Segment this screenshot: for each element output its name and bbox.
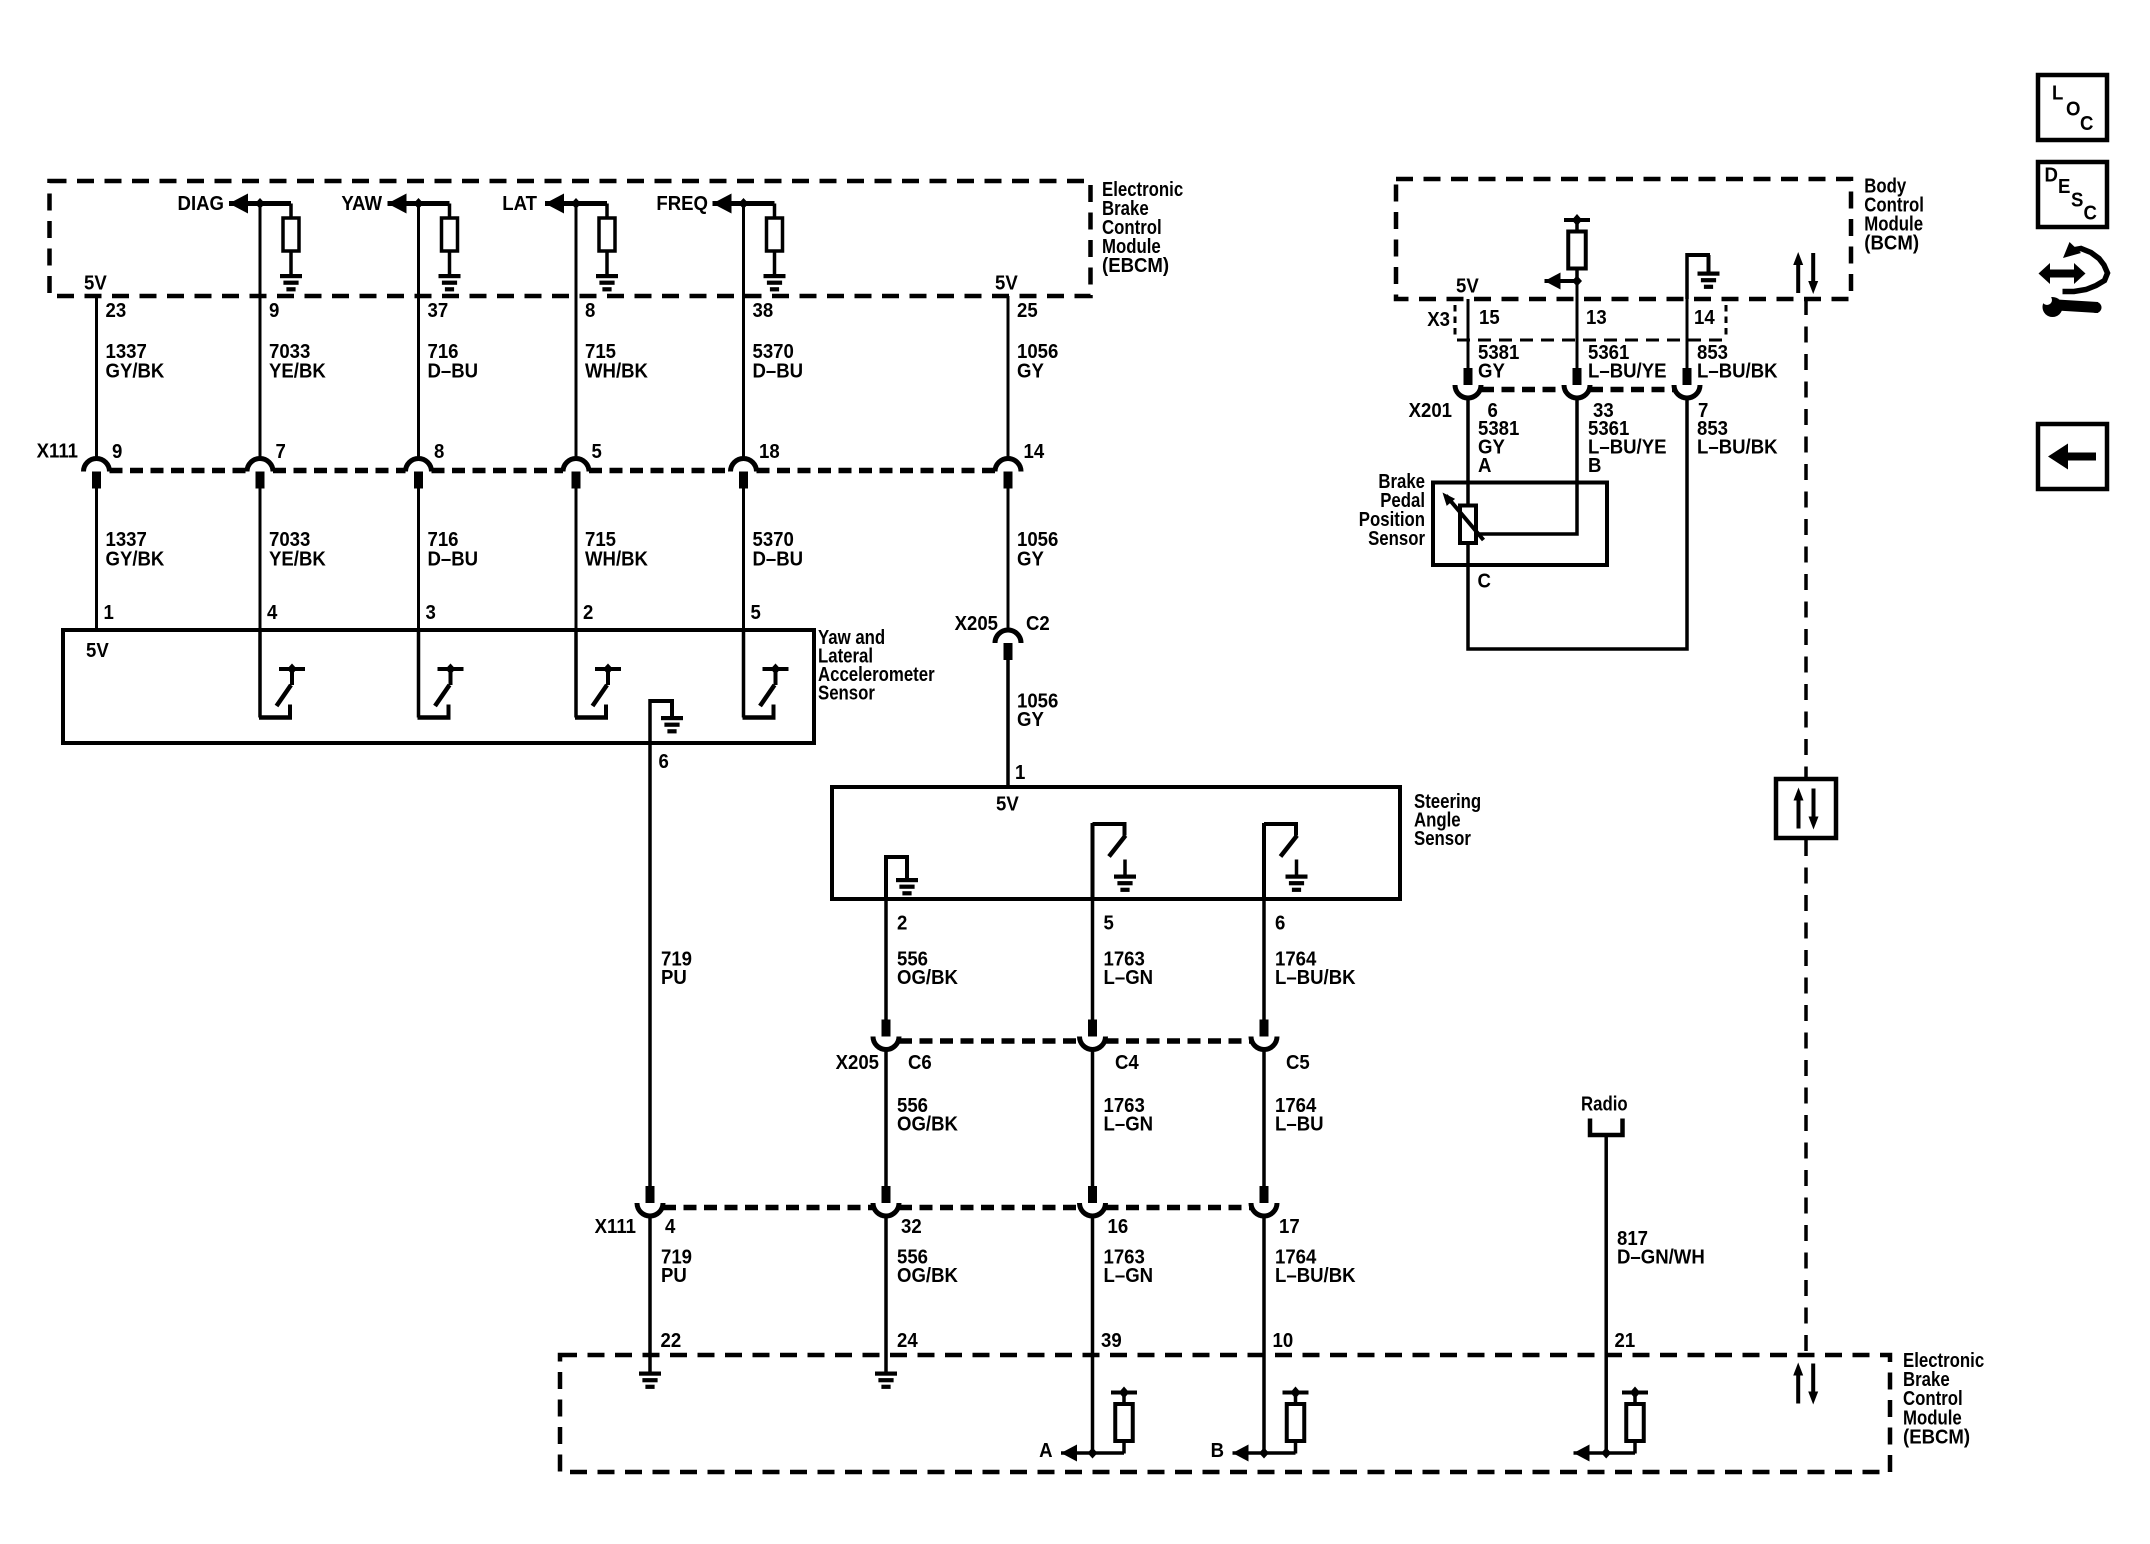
- svg-text:1: 1: [1015, 762, 1026, 784]
- svg-text:15: 15: [1479, 307, 1500, 329]
- svg-text:O: O: [2066, 99, 2080, 121]
- svg-text:5V: 5V: [1456, 276, 1479, 298]
- svg-text:GY: GY: [1017, 549, 1044, 571]
- svg-text:Module: Module: [1102, 235, 1161, 258]
- svg-text:9: 9: [112, 441, 123, 463]
- svg-text:OG/BK: OG/BK: [897, 967, 958, 989]
- svg-text:GY/BK: GY/BK: [106, 361, 165, 383]
- svg-text:4: 4: [267, 602, 278, 624]
- svg-text:6: 6: [1275, 913, 1286, 935]
- svg-text:YAW: YAW: [341, 193, 382, 215]
- svg-text:B: B: [1211, 1440, 1224, 1462]
- svg-text:OG/BK: OG/BK: [897, 1265, 958, 1287]
- svg-text:Module: Module: [1864, 212, 1923, 235]
- svg-text:X205: X205: [836, 1052, 880, 1074]
- svg-text:5: 5: [592, 441, 603, 463]
- svg-text:5V: 5V: [995, 273, 1018, 295]
- svg-text:716: 716: [428, 341, 459, 363]
- svg-text:715: 715: [585, 341, 616, 363]
- svg-text:D: D: [2045, 165, 2058, 187]
- svg-text:E: E: [2058, 176, 2071, 198]
- svg-text:7: 7: [276, 441, 286, 463]
- svg-text:S: S: [2071, 190, 2084, 212]
- svg-text:X205: X205: [955, 613, 999, 635]
- svg-text:715: 715: [585, 529, 616, 551]
- svg-text:5370: 5370: [753, 341, 794, 363]
- svg-text:C5: C5: [1286, 1052, 1310, 1074]
- svg-text:X111: X111: [37, 441, 79, 463]
- svg-text:GY/BK: GY/BK: [106, 549, 165, 571]
- svg-text:C: C: [2084, 203, 2097, 225]
- svg-text:1: 1: [104, 602, 115, 624]
- svg-text:7033: 7033: [269, 341, 311, 363]
- svg-text:Sensor: Sensor: [1414, 826, 1471, 849]
- svg-text:GY: GY: [1478, 361, 1505, 383]
- svg-text:17: 17: [1279, 1216, 1300, 1238]
- svg-text:C4: C4: [1115, 1052, 1139, 1074]
- svg-text:18: 18: [759, 441, 780, 463]
- svg-text:L–BU/BK: L–BU/BK: [1275, 967, 1356, 989]
- svg-text:L–GN: L–GN: [1104, 967, 1154, 989]
- svg-text:Sensor: Sensor: [1368, 526, 1425, 549]
- svg-text:PU: PU: [661, 1265, 687, 1287]
- svg-text:(EBCM): (EBCM): [1903, 1427, 1970, 1449]
- svg-text:2: 2: [583, 602, 593, 624]
- svg-text:WH/BK: WH/BK: [585, 361, 648, 383]
- svg-text:5: 5: [1104, 913, 1115, 935]
- svg-text:1056: 1056: [1017, 529, 1059, 551]
- svg-text:GY: GY: [1017, 709, 1044, 731]
- svg-text:C2: C2: [1026, 613, 1050, 635]
- svg-text:Module: Module: [1903, 1406, 1962, 1429]
- svg-text:32: 32: [901, 1216, 922, 1238]
- svg-text:A: A: [1039, 1440, 1052, 1462]
- svg-text:7033: 7033: [269, 529, 311, 551]
- svg-text:9: 9: [269, 300, 280, 322]
- svg-text:39: 39: [1101, 1330, 1122, 1352]
- svg-text:5370: 5370: [753, 529, 794, 551]
- svg-text:DIAG: DIAG: [178, 193, 224, 215]
- svg-text:16: 16: [1108, 1216, 1129, 1238]
- svg-text:YE/BK: YE/BK: [269, 361, 326, 383]
- svg-text:Sensor: Sensor: [818, 681, 875, 704]
- svg-text:10: 10: [1273, 1330, 1294, 1352]
- svg-text:716: 716: [428, 529, 459, 551]
- svg-text:L–GN: L–GN: [1104, 1265, 1154, 1287]
- svg-text:L–BU: L–BU: [1275, 1114, 1324, 1136]
- svg-text:D–GN/WH: D–GN/WH: [1617, 1247, 1705, 1269]
- svg-text:D–BU: D–BU: [428, 549, 479, 571]
- svg-text:X111: X111: [595, 1216, 637, 1238]
- svg-text:(EBCM): (EBCM): [1102, 255, 1169, 277]
- svg-text:C6: C6: [908, 1052, 932, 1074]
- svg-text:(BCM): (BCM): [1864, 233, 1919, 255]
- svg-text:L: L: [2052, 83, 2064, 105]
- svg-text:38: 38: [753, 300, 774, 322]
- svg-text:2: 2: [897, 913, 907, 935]
- svg-text:L–GN: L–GN: [1104, 1114, 1154, 1136]
- svg-text:22: 22: [661, 1330, 682, 1352]
- svg-text:YE/BK: YE/BK: [269, 549, 326, 571]
- svg-text:B: B: [1588, 455, 1601, 477]
- svg-text:D–BU: D–BU: [753, 361, 804, 383]
- svg-text:13: 13: [1586, 307, 1607, 329]
- svg-text:8: 8: [434, 441, 445, 463]
- svg-text:37: 37: [428, 300, 449, 322]
- svg-text:3: 3: [426, 602, 437, 624]
- svg-text:WH/BK: WH/BK: [585, 549, 648, 571]
- svg-text:X3: X3: [1427, 309, 1450, 331]
- svg-text:1337: 1337: [106, 529, 147, 551]
- svg-text:D–BU: D–BU: [428, 361, 479, 383]
- svg-text:24: 24: [897, 1330, 918, 1352]
- svg-text:A: A: [1478, 455, 1491, 477]
- svg-text:X201: X201: [1409, 400, 1453, 422]
- svg-text:L–BU/BK: L–BU/BK: [1275, 1265, 1356, 1287]
- svg-text:1056: 1056: [1017, 341, 1059, 363]
- svg-text:D–BU: D–BU: [753, 549, 804, 571]
- svg-text:OG/BK: OG/BK: [897, 1114, 958, 1136]
- svg-text:5V: 5V: [84, 273, 107, 295]
- svg-text:1337: 1337: [106, 341, 147, 363]
- svg-text:Radio: Radio: [1581, 1092, 1628, 1115]
- svg-text:6: 6: [659, 751, 670, 773]
- svg-text:C: C: [2080, 113, 2093, 135]
- svg-text:PU: PU: [661, 967, 687, 989]
- svg-text:5V: 5V: [996, 794, 1019, 816]
- svg-text:C: C: [1478, 571, 1491, 593]
- svg-text:L–BU/BK: L–BU/BK: [1697, 437, 1778, 459]
- svg-text:GY: GY: [1017, 361, 1044, 383]
- svg-text:FREQ: FREQ: [656, 193, 708, 215]
- svg-text:14: 14: [1694, 307, 1715, 329]
- svg-text:25: 25: [1017, 300, 1038, 322]
- svg-text:5V: 5V: [86, 640, 109, 662]
- svg-text:5: 5: [751, 602, 762, 624]
- svg-text:4: 4: [665, 1216, 676, 1238]
- svg-text:8: 8: [585, 300, 596, 322]
- svg-text:14: 14: [1024, 441, 1045, 463]
- svg-text:L–BU/YE: L–BU/YE: [1588, 361, 1667, 383]
- svg-text:21: 21: [1615, 1330, 1636, 1352]
- svg-text:23: 23: [106, 300, 127, 322]
- svg-text:L–BU/BK: L–BU/BK: [1697, 361, 1778, 383]
- svg-text:LAT: LAT: [502, 193, 537, 215]
